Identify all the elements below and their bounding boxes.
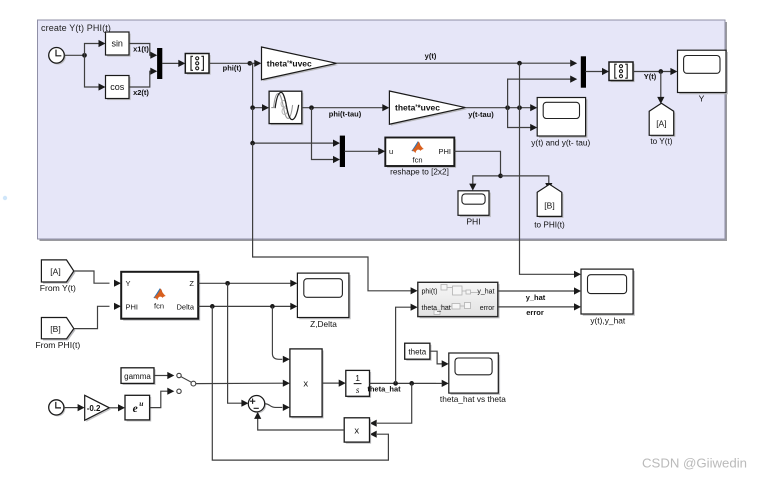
- svg-text:x2(t): x2(t): [133, 88, 149, 97]
- wire phi to Mux2 input 1: [253, 108, 334, 143]
- arrow into Mux input 2: [150, 68, 157, 75]
- clock Clock: [49, 48, 66, 65]
- wire switch output to product input 2: [196, 382, 283, 384]
- junction phi(t): [247, 61, 252, 66]
- wire Z branch down to sum: [228, 283, 243, 403]
- junction y(t-tau) b: [517, 105, 522, 110]
- svg-text:create Y(t) PHI(t): create Y(t) PHI(t): [41, 23, 111, 33]
- wire theta_hat scope seg: [436, 382, 443, 384]
- svg-text:theta_hat: theta_hat: [367, 385, 401, 394]
- arrow into Mux input 1: [150, 52, 157, 59]
- block integrator 1/s: [346, 370, 371, 398]
- svg-text:From PHI(t): From PHI(t): [35, 340, 80, 350]
- block product2 (x): [344, 418, 371, 444]
- arrow into Mux2 input 1: [333, 140, 340, 147]
- wire theta_hat from integrator to scope: [370, 382, 437, 384]
- block sin (Trigonometric Function): [106, 32, 131, 57]
- junction y(t): [517, 61, 522, 66]
- wire Z output to scope: [198, 282, 291, 284]
- svg-text:-0.2: -0.2: [87, 404, 101, 413]
- from block [A]: [41, 260, 75, 284]
- svg-text:theta'*uvec: theta'*uvec: [267, 58, 312, 68]
- svg-text:[A]: [A]: [50, 267, 60, 277]
- svg-text:From Y(t): From Y(t): [40, 283, 76, 293]
- wire from A to fcn Y input: [74, 271, 110, 283]
- arrow into sum bottom: [254, 412, 261, 419]
- wire y(t) from gain1 to Mux3: [337, 62, 572, 64]
- goto block [A]: [649, 103, 675, 137]
- svg-text:[A]: [A]: [656, 119, 666, 129]
- gain theta'*uvec (1): [262, 47, 339, 81]
- wire theta_hat up to subsystem: [396, 307, 412, 383]
- svg-text:theta: theta: [408, 347, 426, 356]
- constant theta: [405, 343, 432, 361]
- wire y(t-tau) up to Mux3 input 2: [508, 79, 571, 108]
- arrow into fcn PHI: [114, 303, 121, 310]
- svg-text:Z: Z: [189, 279, 194, 288]
- junction phi at mux2 row: [250, 141, 255, 146]
- arrow into product2 input 1: [370, 420, 377, 427]
- svg-text:y_hat: y_hat: [526, 293, 546, 302]
- arrow into scope PHI: [469, 184, 476, 191]
- arrow into concat2: [602, 68, 609, 75]
- arrow into concat1: [178, 60, 185, 67]
- wire e^u to switch lower input: [150, 391, 168, 407]
- arrow into goto A: [657, 97, 664, 104]
- wire branch down to cos input: [85, 55, 100, 87]
- svg-text:s: s: [356, 385, 360, 395]
- wire sin output x1(t) to Mux: [129, 44, 152, 56]
- svg-text:to PHI(t): to PHI(t): [534, 220, 565, 229]
- arrow into gain2: [382, 104, 389, 111]
- arrow into Mux3 input 1: [570, 60, 577, 67]
- svg-text:fcn: fcn: [412, 156, 422, 165]
- junction Delta b: [270, 304, 275, 309]
- wire phi(t) to gain1: [209, 62, 255, 64]
- arrow into gain1: [254, 60, 261, 67]
- wire Mux2 output to fcn u: [345, 150, 380, 152]
- svg-text:y_hat: y_hat: [477, 289, 494, 296]
- wire Delta output to scope: [198, 305, 291, 307]
- junction phi at delay row: [250, 105, 255, 110]
- svg-text:y(t-tau): y(t-tau): [468, 110, 494, 119]
- wire Mux3 output to concat2: [586, 71, 603, 73]
- block MATLAB Function reshape: [385, 138, 456, 168]
- svg-text:1: 1: [355, 373, 360, 383]
- wire phi(t-tau) to gain2: [302, 107, 384, 109]
- gain theta'*uvec (2): [389, 91, 467, 126]
- svg-text:theta_hat: theta_hat: [422, 305, 451, 312]
- wire y(t-tau) from gain2 to scope: [465, 107, 531, 109]
- svg-text:Delta: Delta: [176, 302, 194, 311]
- junction Z: [225, 281, 230, 286]
- arrow into Transport Delay: [262, 104, 269, 111]
- wire clock2 to gain3: [64, 407, 78, 409]
- arrow into scope y(t),y_hat input 3: [574, 303, 581, 310]
- goto block [B]: [537, 184, 563, 218]
- svg-text:gamma: gamma: [124, 372, 151, 381]
- wire sum output to product input 3: [265, 404, 283, 408]
- svg-text:x: x: [354, 426, 359, 437]
- junction phi(t-tau): [309, 105, 314, 110]
- wire product2 output to sum bottom: [258, 418, 345, 430]
- svg-text:theta_hat vs theta: theta_hat vs theta: [440, 394, 506, 404]
- wire clock to branch point: [64, 54, 84, 56]
- block MATLAB Function fcn (Y,PHI->Z,Delta): [121, 272, 200, 321]
- wire Delta branch down-around to product2: [212, 306, 388, 460]
- scope theta_hat vs theta: [449, 353, 500, 395]
- constant gamma: [121, 368, 156, 385]
- subsystem area box 'create Y(t) PHI(t)': [38, 20, 728, 241]
- arrow into reshape fcn u: [378, 148, 385, 155]
- svg-text:to Y(t): to Y(t): [650, 137, 672, 146]
- junction theta_hat b: [409, 381, 414, 386]
- svg-text:fcn: fcn: [154, 302, 164, 311]
- wire from B to fcn PHI input: [74, 306, 110, 328]
- wire y(t) down to scope y(t),y_hat: [520, 63, 576, 274]
- wire PHI to goto B: [501, 176, 549, 184]
- svg-text:theta'*uvec: theta'*uvec: [395, 103, 440, 113]
- block cos (Trigonometric Function): [106, 76, 131, 101]
- clock Clock1: [49, 400, 66, 417]
- wire branch up to sin input: [85, 44, 100, 56]
- arrow into fcn Y: [114, 280, 121, 287]
- svg-text:Z,Delta: Z,Delta: [310, 319, 337, 329]
- svg-text:u: u: [139, 399, 143, 408]
- svg-text:Y: Y: [126, 279, 131, 288]
- junction y(t-tau) a: [505, 105, 510, 110]
- stray blue dot: [3, 196, 7, 200]
- arrow into scope y(t),y_hat input 1: [574, 271, 581, 278]
- svg-text:x: x: [303, 378, 308, 389]
- gain -0.2: [85, 395, 111, 422]
- arrow into integrator: [339, 380, 346, 387]
- wire phi down and right to subsystem input: [253, 143, 412, 291]
- svg-text:error: error: [526, 308, 544, 317]
- wire product output to integrator: [322, 382, 339, 384]
- block product (x): [290, 349, 324, 419]
- manual switch: [177, 373, 196, 393]
- wire PHI output to branch: [454, 151, 500, 184]
- junction clock branch: [82, 53, 87, 58]
- svg-text:y(t): y(t): [425, 52, 437, 61]
- scope Y: [678, 50, 728, 94]
- svg-text:e: e: [133, 403, 138, 415]
- arrow into scope theta input 2: [442, 380, 449, 387]
- junction Y(t): [658, 69, 663, 74]
- wire cos output x2(t) to Mux: [129, 71, 152, 87]
- mux Mux1: [157, 48, 162, 79]
- arrow into subsystem phi(t) input: [411, 287, 418, 294]
- wire y(t-tau) down to scope input 2: [508, 108, 532, 128]
- svg-text:cos: cos: [110, 82, 125, 92]
- wire Y(t) down to goto A: [660, 72, 662, 98]
- block vector concat 1 [:]: [185, 54, 210, 75]
- wire theta_hat down to product2 input 1: [377, 383, 412, 423]
- arrow into scope theta input 1: [442, 360, 449, 367]
- wire y_hat to scope: [498, 290, 575, 292]
- junction theta_hat a: [393, 381, 398, 386]
- wire gamma to switch: [154, 375, 168, 377]
- arrow into product input 1: [283, 356, 290, 363]
- arrow into sin: [99, 40, 106, 47]
- arrow into Mux2 input 2: [333, 156, 340, 163]
- junction Delta a: [210, 304, 215, 309]
- arrow into product input 3: [283, 404, 290, 411]
- svg-text:PHI: PHI: [466, 216, 480, 226]
- arrow into cos: [99, 83, 106, 90]
- svg-text:CSDN @Giiwedin: CSDN @Giiwedin: [642, 456, 747, 471]
- arrow into scope y(t),y_hat input 2: [574, 287, 581, 294]
- svg-text:phi(t-tau): phi(t-tau): [329, 110, 362, 119]
- arrow into e^u: [118, 404, 125, 411]
- block math function e^u: [125, 395, 151, 421]
- mux Mux2: [340, 136, 345, 167]
- arrow into scope Z,Delta input 1: [290, 280, 297, 287]
- arrow into Mux3 input 2: [570, 76, 577, 83]
- block vector concat 2 [:]: [609, 62, 635, 82]
- wire Y(t) to scope Y: [633, 71, 671, 73]
- svg-text:phi(t): phi(t): [422, 289, 438, 296]
- svg-text:phi(t): phi(t): [223, 64, 242, 73]
- subsystem block (phi,theta_hat -> y_hat,error): [418, 282, 500, 318]
- scope Z,Delta: [297, 273, 350, 319]
- wire Delta branch to product input 1: [272, 306, 282, 359]
- svg-text:PHI: PHI: [126, 302, 139, 311]
- svg-text:u: u: [389, 147, 393, 156]
- arrow at switch lower input: [167, 388, 174, 395]
- arrow into scope Y: [670, 68, 677, 75]
- arrow into subsystem theta_hat input: [411, 304, 418, 311]
- wire Mux1 output to concat block: [162, 62, 179, 64]
- arrow into sum +: [241, 400, 248, 407]
- svg-text:y(t) and y(t- tau): y(t) and y(t- tau): [531, 138, 590, 148]
- sum block (+-): [248, 396, 266, 414]
- arrow into scope Z,Delta input 2: [290, 303, 297, 310]
- svg-text:Y(t): Y(t): [644, 72, 657, 81]
- svg-text:[B]: [B]: [50, 324, 60, 334]
- svg-text:PHI: PHI: [438, 147, 451, 156]
- scope y(t),y_hat: [581, 269, 635, 316]
- block Transport Delay: [269, 91, 303, 125]
- arrow into goto B: [545, 183, 552, 190]
- svg-text:sin: sin: [111, 39, 123, 49]
- wire gain3 to exp: [109, 407, 119, 409]
- svg-text:y(t),y_hat: y(t),y_hat: [590, 316, 626, 326]
- arrow into product2 input 2: [370, 431, 377, 438]
- svg-text:Y: Y: [699, 94, 705, 104]
- svg-text:error: error: [480, 305, 495, 312]
- arrow at switch upper input: [167, 372, 174, 379]
- wire phi(t-tau) down to Mux2 input 2: [312, 108, 335, 160]
- wire error to scope: [498, 306, 575, 308]
- junction PHI: [498, 174, 503, 179]
- arrow into product input 2: [283, 380, 290, 387]
- mux Mux3: [581, 56, 586, 87]
- scope y(t) and y(t- tau): [537, 98, 587, 138]
- from block [B]: [41, 318, 75, 341]
- svg-text:[B]: [B]: [544, 201, 554, 211]
- arrow into gain -0.2: [78, 404, 85, 411]
- arrow into scope y(t) and y(t-tau) input 2: [530, 124, 537, 131]
- wire theta to scope input 1: [430, 351, 443, 364]
- svg-text:x1(t): x1(t): [133, 44, 149, 53]
- scope PHI: [458, 191, 491, 217]
- arrow into scope y(t) and y(t-tau) input 1: [530, 104, 537, 111]
- wire phi branch down to delay: [250, 63, 263, 107]
- svg-text:reshape to [2x2]: reshape to [2x2]: [390, 168, 449, 177]
